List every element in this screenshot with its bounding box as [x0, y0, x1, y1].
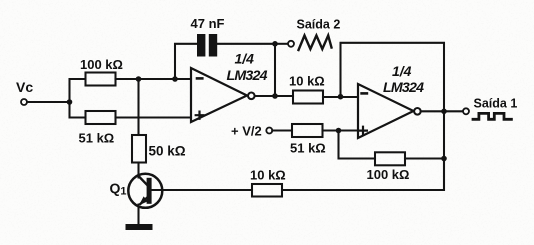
op-amp U2 triangle	[358, 84, 414, 138]
node H junction (feedback to output riser)	[441, 156, 447, 162]
terminal +V/2	[266, 128, 272, 134]
svg-text:Vc: Vc	[16, 79, 33, 95]
svg-text:47 nF: 47 nF	[191, 16, 225, 31]
wire node A up to top branch	[70, 79, 86, 102]
resistor R2 51k box	[86, 111, 116, 124]
svg-text:51 kΩ: 51 kΩ	[79, 131, 115, 146]
svg-text:10 kΩ: 10 kΩ	[289, 74, 325, 89]
wire opamp2 output to Saida1	[421, 110, 463, 112]
wire R7 to output riser	[282, 159, 444, 191]
resistor R1 100k box	[86, 73, 116, 86]
transistor Q1 collector diagonal	[139, 176, 148, 185]
node G junction (opamp2 plus)	[336, 128, 342, 134]
wire R6 to output riser	[405, 157, 444, 159]
svg-text:1/4: 1/4	[392, 63, 412, 79]
node I junction (output riser)	[441, 109, 447, 115]
op-amp U1 triangle	[191, 68, 247, 122]
svg-text:LM324: LM324	[383, 80, 424, 96]
wire Q1 base to bottom 10k	[152, 189, 252, 191]
op-amp U1 minus sign	[197, 77, 202, 80]
svg-text:LM324: LM324	[227, 68, 268, 84]
capacitor C1 47nF right plate	[209, 34, 217, 57]
svg-text:100 kΩ: 100 kΩ	[367, 167, 410, 182]
terminal Saida 1	[463, 108, 469, 114]
transistor Q1 base bar	[147, 178, 152, 204]
wire node A down to bottom branch	[70, 102, 86, 118]
terminal Vc	[21, 99, 27, 105]
svg-text:Saída 2: Saída 2	[297, 18, 341, 32]
svg-text:Saída 1: Saída 1	[474, 97, 518, 111]
resistor R6 100k box	[375, 152, 405, 165]
transistor Q1 emitter arrow	[139, 196, 148, 205]
resistor R5 51k box	[292, 124, 323, 137]
node D junction (top of output riser)	[272, 41, 278, 47]
svg-text:1/4: 1/4	[235, 51, 255, 67]
terminal Saida 2	[288, 41, 294, 47]
wire node D to Saida2 terminal	[275, 43, 288, 45]
waveform icon square wave	[473, 113, 511, 119]
node F junction (opamp2 minus)	[338, 94, 344, 100]
svg-text:10 kΩ: 10 kΩ	[250, 168, 286, 183]
wire +V/2 to R5	[272, 129, 292, 131]
op-amp U2 plus sign	[359, 127, 367, 135]
ground symbol	[126, 224, 153, 230]
wire Vc to node A	[27, 101, 70, 103]
op-amp U2 output bubble	[414, 108, 421, 115]
resistor R3 50k box (vertical)	[132, 135, 146, 163]
wire R3 to Q1 collector	[137, 163, 139, 178]
resistor R7 10k box (bottom)	[252, 184, 282, 197]
wire Q1 emitter down	[137, 205, 139, 225]
resistor R4 10k box	[293, 91, 323, 104]
transistor Q1 emitter diagonal	[141, 196, 149, 204]
svg-text:51 kΩ: 51 kΩ	[290, 141, 326, 156]
capacitor C1 47nF left plate	[197, 34, 205, 57]
node B junction (to 50k)	[136, 76, 142, 82]
svg-text:+ V/2: + V/2	[231, 124, 262, 139]
node A junction	[67, 99, 73, 105]
wire R1 to opamp1 minus input	[116, 78, 192, 80]
wire R2 to opamp1 plus input	[116, 116, 192, 118]
op-amp U1 plus sign	[196, 112, 204, 119]
node C junction (to cap)	[172, 76, 178, 82]
wire opamp1 output to R4	[255, 95, 293, 97]
waveform icon triangle wave	[299, 36, 332, 51]
wire riser output to cap	[274, 44, 276, 96]
wire riser down to bottom wire	[443, 111, 445, 190]
wire R4 to opamp2 minus input	[323, 96, 358, 98]
wire R5 to opamp2 plus input	[323, 129, 359, 131]
op-amp U2 minus sign	[362, 92, 367, 95]
wire capacitor to node D	[217, 43, 275, 45]
wire feedback loop top (U2 output to minus node)	[341, 43, 445, 112]
op-amp U1 output bubble	[248, 93, 255, 100]
svg-text:50 kΩ: 50 kΩ	[149, 144, 186, 159]
wire node C up to capacitor	[175, 44, 197, 79]
transistor Q1 circle	[128, 174, 162, 208]
node E junction (opamp1 output)	[272, 93, 278, 99]
svg-text:100 kΩ: 100 kΩ	[80, 57, 123, 72]
wire node B down to R3	[137, 79, 139, 135]
wire node G down to R6	[339, 131, 376, 159]
